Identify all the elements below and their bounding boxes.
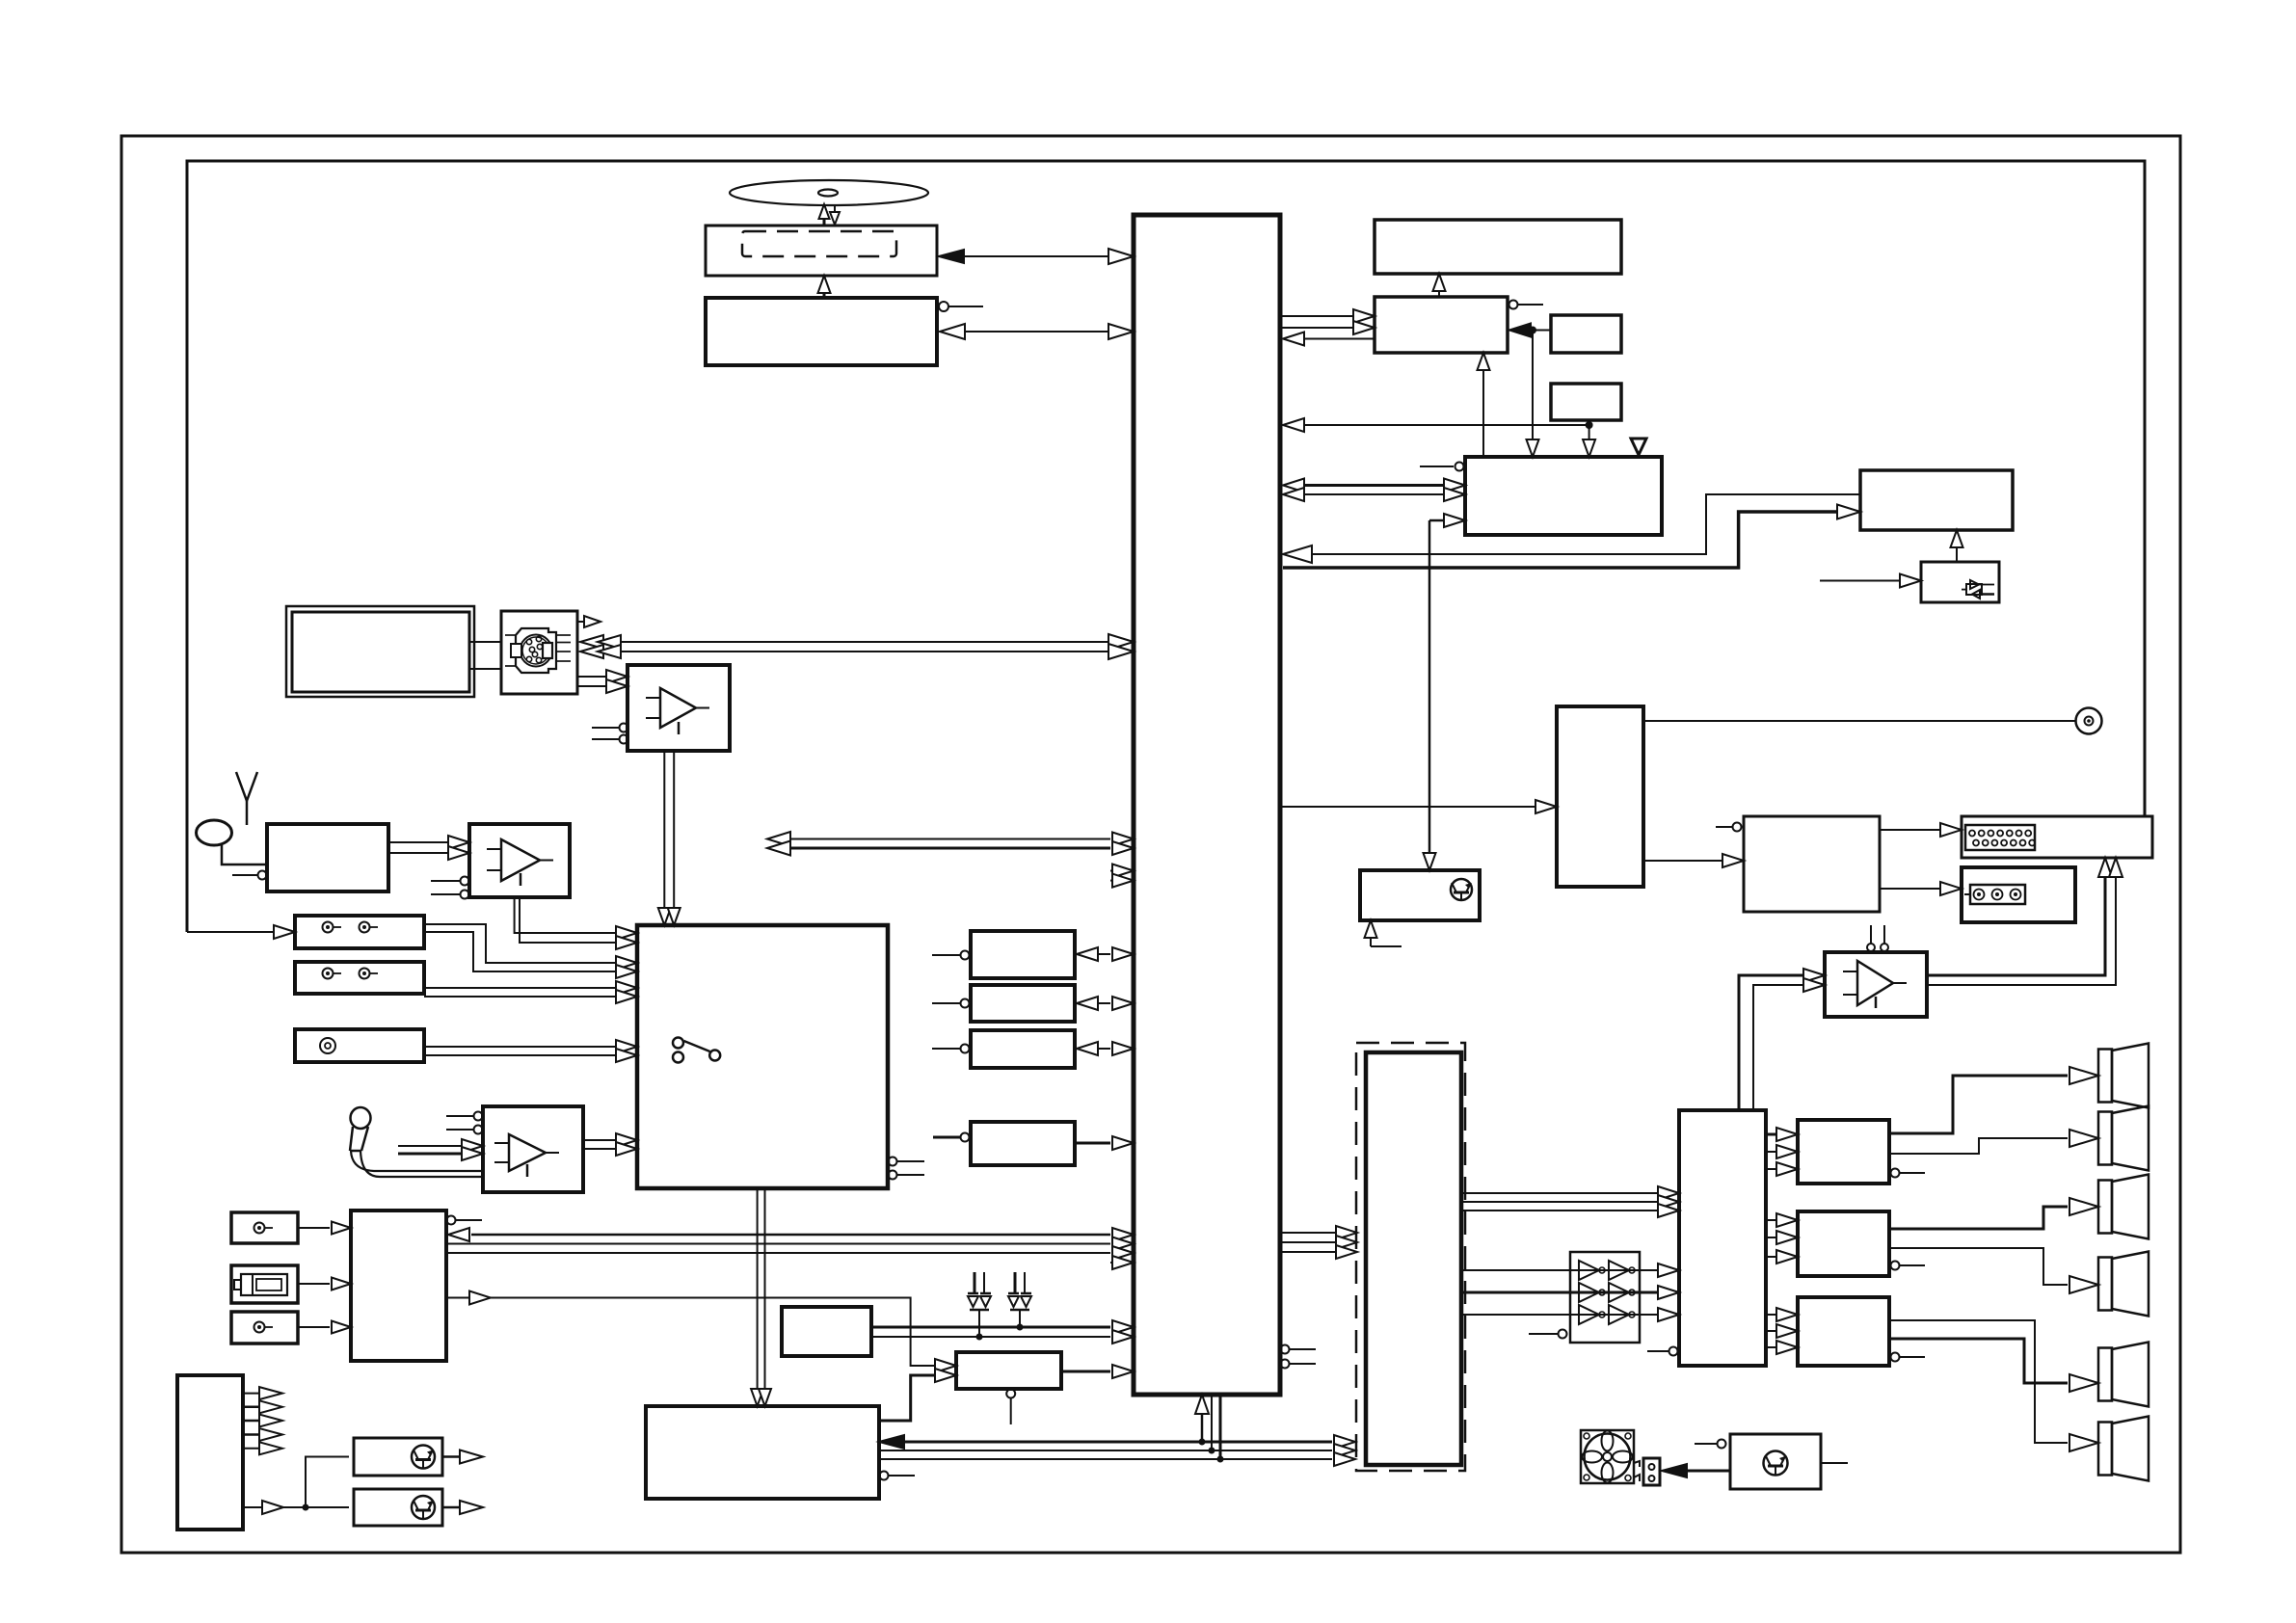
wire fan driver stub (1821, 1462, 1848, 1464)
wire coax to selector a (424, 1040, 637, 1053)
selector monitor out stubs (889, 1157, 925, 1180)
wire regulator out 2 (442, 1501, 483, 1514)
wire sensor to encoder (1951, 530, 1963, 562)
wire reset to mech controller (1583, 420, 1595, 457)
wire data bus 1 (448, 1228, 1134, 1241)
wire aux to selector a (424, 924, 637, 970)
power amp U22 (1798, 1297, 1925, 1366)
wire mic amp in a (398, 1139, 483, 1153)
wire data bus 2 (446, 1237, 1134, 1251)
optical pickup U1 (706, 226, 937, 276)
wire power bus 1 (879, 1435, 1355, 1449)
wire motor driver sense (1365, 920, 1402, 946)
wire controller stub c (1110, 1256, 1134, 1269)
coaxial input jack J3 (295, 1029, 424, 1062)
wire monitor-connector a (469, 641, 501, 643)
line input jacks J2 (295, 962, 424, 994)
wire tuner amp to selector L (515, 897, 637, 940)
speaker SP1 (2098, 1044, 2149, 1108)
wire to IR sensor (1820, 574, 1921, 588)
wire mech controller link (1424, 514, 1466, 870)
digital receiver U13 (351, 1211, 482, 1361)
speaker SP3 (2098, 1175, 2149, 1239)
wire controller to dsp 1 (1280, 1226, 1357, 1239)
wire eeprom bus (1077, 1042, 1134, 1055)
wire panel to mech controller (1478, 353, 1490, 457)
wire driver to amp2 c (1766, 1250, 1798, 1264)
wire regulator out 1 (442, 1450, 483, 1464)
wire sram bus (1077, 997, 1134, 1010)
wire switch to phones (1643, 720, 2075, 722)
fan connector CN3 (1634, 1458, 1660, 1485)
wire driver to headphone amp b (1753, 978, 1825, 1110)
wire driver to amp1 c (1766, 1162, 1798, 1176)
wire dsp to driver 2 (1461, 1195, 1679, 1209)
wire headphone amp to scart b (1927, 858, 2122, 985)
power detect U25 (1551, 315, 1621, 353)
wire aux to selector b (424, 932, 637, 978)
wire mic amp in b (398, 1147, 483, 1160)
speaker SP6 (2098, 1417, 2149, 1481)
power supply U14 (782, 1307, 871, 1356)
front panel controller U24 (1375, 297, 1543, 353)
wire controller to encoder b (1283, 505, 1860, 569)
wire driver to amp2 b (1766, 1231, 1798, 1244)
wire controller to video switch (1280, 800, 1557, 813)
wire supply to controller (871, 1330, 1134, 1344)
wire tuner amp to selector R (520, 897, 637, 949)
wire mic amp to selector b (583, 1142, 637, 1156)
zener D1 (968, 1272, 991, 1341)
wire mic amp to selector a (583, 1133, 637, 1147)
wire driver to headphone amp a (1739, 969, 1825, 1110)
tuner amp U6 (431, 824, 570, 899)
wire to video amp b (577, 679, 627, 693)
fan driver Q1 (1695, 1434, 1821, 1489)
wire receiver to regulator (446, 1291, 956, 1373)
disc (730, 180, 928, 205)
wire panel to display (1433, 274, 1446, 297)
wire driver to amp2 a (1766, 1213, 1798, 1227)
wire +B to controller (871, 1320, 1134, 1334)
regulator Q3 (354, 1438, 442, 1476)
wire controller tap 3 (1217, 1395, 1224, 1463)
motor driver Q2 (1360, 870, 1480, 920)
wire C signal (580, 644, 1134, 659)
reset IC U26 (1551, 384, 1621, 420)
monitor CRT (286, 606, 474, 697)
wire servo bus (940, 324, 1134, 339)
wire connector stub pin (577, 616, 601, 627)
headphone amp U19 (1825, 925, 1927, 1017)
wire dsp to driver 6 (1461, 1308, 1679, 1321)
system controller U3 (1134, 215, 1280, 1395)
wire controller to panel b (1280, 321, 1375, 334)
scart connector CN4 (1962, 816, 2152, 858)
wire line to selector b (424, 990, 637, 1003)
wire tuner out L (388, 836, 469, 849)
wire mech bus b (1283, 488, 1465, 501)
wire tuner out R (388, 846, 469, 860)
wire dsp to driver 1 (1461, 1186, 1679, 1200)
mechanism controller U27 (1420, 439, 1662, 535)
wire amp2 to speaker4 (1889, 1248, 2098, 1293)
speaker SP4 (2098, 1252, 2149, 1317)
coaxial digital jack J6 (231, 1312, 298, 1344)
wire dsp to driver 5 (1461, 1286, 1679, 1299)
SRAM U10 (932, 985, 1075, 1022)
video encoder U28 (1860, 470, 2013, 530)
wire amp3 to speaker6 (1889, 1320, 2098, 1451)
IR sensor U29 (1921, 562, 1999, 602)
tuner U5 (232, 824, 388, 891)
pre driver U18 (1647, 1110, 1766, 1366)
wire coax to selector b (424, 1049, 637, 1062)
transformer taps (243, 1387, 282, 1454)
wire monitor-connector b (469, 668, 501, 670)
wire disc to pickup (819, 204, 841, 226)
wire Y signal (580, 634, 1134, 650)
wire dsp to driver 3 (1461, 1204, 1679, 1217)
phones jack J7 (2076, 708, 2102, 734)
wire video jack to receiver (298, 1222, 351, 1235)
wire OSD to scart (1880, 823, 1962, 837)
regulator Q4 (354, 1489, 442, 1526)
wire optical to receiver (298, 1278, 351, 1290)
wire headphone amp to scart a (1927, 858, 2112, 975)
power amp U20 (1798, 1120, 1925, 1184)
zener D2 (1008, 1272, 1031, 1331)
video amp U4 (592, 665, 730, 751)
wire coax digital to receiver (298, 1321, 351, 1334)
wire controller to dsp 3 (1280, 1245, 1357, 1259)
S-video connector CN2 (501, 611, 577, 694)
wire selector to audio dsp b (759, 1188, 771, 1406)
flash ROM U12 (933, 1122, 1075, 1165)
wire switch to OSD (1643, 854, 1744, 867)
wire transformer to regulators (243, 1457, 349, 1515)
power amp U21 (1798, 1211, 1925, 1276)
enclosure boundary (187, 161, 2145, 932)
microphone MIC1 (350, 1107, 483, 1177)
wire controller to panel a (1280, 309, 1375, 323)
SDRAM U9 (932, 931, 1075, 978)
DSP module U17 (1356, 1043, 1465, 1471)
mic amp U7 (446, 1106, 583, 1192)
servo driver U2 (706, 298, 983, 365)
speaker SP2 (2098, 1106, 2149, 1171)
wire selector to audio dsp a (751, 1188, 763, 1406)
aux input jacks J1 (295, 916, 424, 948)
wire video amp to selector b (668, 751, 681, 925)
display module U23 (1375, 220, 1621, 274)
wire controller tap 2 (1209, 1395, 1215, 1454)
wire amp3 to speaker5 (1889, 1339, 2098, 1392)
wire av bus a (767, 832, 1134, 846)
wire regulator to controller (1061, 1365, 1134, 1378)
controller aux stubs (1281, 1345, 1317, 1369)
hex buffer U33 (1529, 1252, 1640, 1343)
wire power bus 2 (879, 1444, 1355, 1457)
wire controller stub a (1110, 865, 1134, 878)
wire reset sense (1283, 418, 1589, 432)
wire pickup feed (818, 276, 831, 298)
wire driver to amp3 c (1766, 1341, 1798, 1354)
wire controller to dsp 2 (1280, 1236, 1357, 1249)
wire line to selector a (424, 981, 637, 995)
wire controller to encoder a (1283, 494, 1860, 563)
wire av bus b (767, 841, 1134, 856)
speaker SP5 (2098, 1343, 2149, 1407)
regulator U16 (956, 1352, 1061, 1424)
wire detect to panel (1509, 324, 1551, 458)
video input jack J4 (231, 1212, 298, 1243)
wire dsp to driver 4 (1461, 1264, 1679, 1277)
wire RF bus (939, 249, 1134, 264)
optical input J5 (231, 1265, 298, 1303)
OSD mixer U31 (1716, 816, 1880, 912)
wire controller stub b (1110, 874, 1134, 888)
wire to video amp a (577, 670, 627, 683)
wire dsp to regulator (879, 1369, 956, 1421)
fan FAN1 (1581, 1430, 1634, 1483)
AM loop antenna (197, 820, 268, 865)
power transformer T1 (177, 1375, 243, 1530)
wire flash bus (1075, 1136, 1134, 1150)
component jacks CN5 (1962, 867, 2075, 922)
wire driver to amp3 b (1766, 1324, 1798, 1338)
wire power bus 3 (879, 1452, 1355, 1466)
audio DSP U15 (646, 1406, 915, 1499)
wire driver to amp1 a (1766, 1128, 1798, 1141)
wire panel to controller (1283, 333, 1375, 346)
wire driver to amp1 b (1766, 1145, 1798, 1158)
wire amp2 to speaker3 (1889, 1198, 2098, 1229)
wire OSD to component (1880, 882, 1962, 895)
input selector U8 (637, 925, 888, 1188)
EEPROM U11 (932, 1030, 1075, 1068)
wire sdram bus (1077, 947, 1134, 961)
wire video amp to selector a (658, 751, 671, 925)
wire data bus 3 (446, 1246, 1134, 1260)
wire fan driver to connector (1662, 1464, 1730, 1477)
wire controller tap 1 (1195, 1395, 1209, 1446)
FM antenna (236, 772, 257, 825)
wire amp1 to speaker2 (1889, 1130, 2098, 1154)
video switch U30 (1557, 706, 1643, 887)
wire driver to amp3 a (1766, 1308, 1798, 1321)
wire boundary to aux (187, 925, 295, 939)
wire amp1 to speaker1 (1889, 1067, 2098, 1133)
wire mech bus a (1283, 479, 1465, 492)
